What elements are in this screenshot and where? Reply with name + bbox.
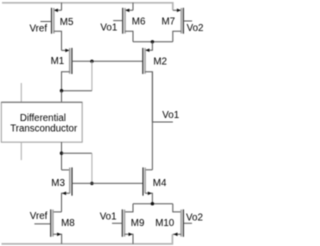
drain wire from M5 (62, 49, 70, 51)
drain lead M4 top from Vo1 (145, 169, 152, 171)
transistor M10 (mirrored) (155, 204, 203, 237)
wire M7 source lead (173, 9, 181, 11)
svg-text:Vo2: Vo2 (186, 213, 203, 224)
input stub below box (20, 142, 22, 160)
source lead M9 with arrow (125, 234, 133, 244)
svg-text:M6: M6 (132, 16, 146, 27)
transistor M6 (100, 3, 146, 42)
junction dot bottom gate wire (90, 182, 93, 185)
svg-text:Vref: Vref (30, 211, 48, 222)
junction dot gate wire (90, 60, 93, 63)
junction dot M4 source (151, 202, 154, 205)
channel bar M3 (69, 168, 71, 194)
source lead M3 with arrow (62, 193, 70, 212)
svg-text:Differential: Differential (20, 113, 66, 124)
arrow M3 source (tip pointing left/away) (62, 192, 66, 196)
arrow M7 source (177, 9, 181, 13)
arrow M5 source (PMOS, tip at channel) (54, 9, 58, 13)
svg-text:M3: M3 (51, 178, 65, 189)
arrow M10 source (174, 233, 178, 237)
main output vertical Vo1 (151, 72, 153, 170)
svg-text:Vo1: Vo1 (100, 22, 117, 33)
source lead M2 bottom (145, 72, 152, 122)
drain lead M3 top (62, 169, 70, 171)
Differential Transconductor box (1, 102, 82, 142)
channel bar M8 (52, 210, 54, 237)
drain lead M9 top (125, 204, 134, 212)
svg-text:M1: M1 (51, 56, 65, 67)
arrow M2 source (145, 48, 149, 52)
junction dot M6/M7 drains (151, 40, 154, 43)
svg-text:M7: M7 (162, 16, 176, 27)
gate lead M7 (183, 20, 192, 22)
wire M5 drain to rail (54, 3, 62, 11)
gate bar M10 (182, 209, 184, 236)
transistor M3 (mirrored NMOS) (51, 167, 72, 212)
gate bar M5 (51, 8, 53, 34)
svg-text:M8: M8 (61, 218, 75, 229)
svg-text:Vref: Vref (30, 23, 48, 34)
channel bar M2 (144, 48, 146, 74)
VDD top rail (2, 3, 173, 10)
channel bar M5 (53, 8, 55, 34)
wire M9/M10 drains interconnect (133, 203, 173, 205)
junction dot box bottom (60, 152, 63, 155)
source lead M8 with arrow (53, 234, 62, 244)
transistor M8 (30, 209, 75, 244)
transistor M5 (30, 3, 74, 51)
drain lead M7 (173, 31, 181, 42)
Vo1 tap stub (152, 121, 173, 123)
gate bar M8 (50, 209, 52, 236)
ground bottom rail (2, 234, 173, 244)
wire M3 gate to M4 gate (72, 182, 143, 184)
arrow M6 source (125, 9, 129, 13)
drain lead M6 (125, 31, 133, 42)
gate bar M9 (121, 209, 123, 236)
wire M1 gate to M2 gate (72, 60, 143, 62)
svg-text:M10: M10 (155, 218, 175, 229)
gate lead M8 (34, 223, 50, 225)
drain lead M10 top (173, 204, 181, 212)
transistor M1 (mirrored, diode-connected) (51, 48, 72, 91)
gate lead M5 (40, 21, 51, 23)
channel bar M9 (124, 210, 126, 237)
gate bar M3 (71, 167, 73, 195)
source lead M4 with arrow (145, 193, 152, 203)
wire gate-drain tie vertical (91, 61, 93, 90)
drain lead M5 bottom (54, 31, 62, 50)
svg-text:Vo1: Vo1 (162, 110, 179, 121)
drain lead M8 top (53, 211, 62, 213)
arrow M8 source (57, 233, 61, 237)
source lead M1 bottom (62, 72, 70, 91)
gate bar M7 (182, 8, 184, 34)
gate bar M1 (71, 48, 73, 74)
source lead M10 with arrow (173, 233, 181, 235)
gate bar M4 (142, 167, 144, 195)
drain wire from dot down (146, 42, 153, 50)
wire gate-drain tie bottom vertical (91, 153, 93, 183)
gate bar M2 (142, 48, 144, 74)
svg-text:Transconductor: Transconductor (10, 124, 78, 135)
wire box top port (61, 91, 63, 102)
channel bar M7 (180, 8, 182, 34)
svg-text:Vo2: Vo2 (187, 23, 204, 34)
wire box bottom port (61, 142, 63, 170)
wire M6 source to rail (125, 3, 133, 11)
input stub above box (20, 83, 22, 102)
transistor M2 (143, 42, 167, 122)
gate bar M6 (122, 8, 124, 34)
svg-text:Vo1: Vo1 (100, 211, 117, 222)
svg-text:M9: M9 (131, 218, 145, 229)
arrow M4 source (tip pointing right/away) (148, 192, 152, 196)
channel bar M4 (144, 168, 146, 194)
gate lead M6 (113, 20, 123, 22)
junction dot M1 source / box port (60, 89, 63, 92)
arrow M9 source (129, 233, 133, 237)
wire gate-drain tie horizontal (62, 90, 92, 92)
svg-text:M2: M2 (153, 56, 167, 67)
wire gate-drain tie bottom horizontal (62, 152, 92, 154)
channel bar M6 (124, 8, 126, 34)
gate lead M10 (183, 222, 192, 224)
transistor M9 (100, 204, 145, 244)
gate lead M9 (112, 222, 122, 224)
channel bar M1 (69, 48, 71, 74)
wire M6/M7 drains interconnect (133, 41, 173, 43)
transistor M7 (mirrored) (162, 8, 204, 42)
arrow M1 source (tip at channel) (65, 49, 69, 53)
svg-text:M4: M4 (153, 178, 167, 189)
transistor M4 (143, 167, 167, 203)
svg-text:M5: M5 (60, 17, 74, 28)
channel bar M10 (180, 210, 182, 237)
